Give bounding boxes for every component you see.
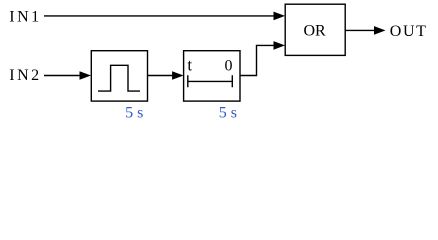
arrowhead into OR input 2 [274, 41, 286, 50]
svg-text:5 s: 5 s [125, 105, 143, 122]
svg-text:IN2: IN2 [9, 67, 41, 84]
svg-text:OR: OR [304, 23, 327, 40]
svg-text:5 s: 5 s [219, 105, 237, 122]
wire IN1 to OR input 1 [44, 15, 274, 17]
wire timer block to OR input 2 (right, up, right) [240, 45, 274, 75]
arrowhead toward OUT [374, 26, 386, 35]
svg-text:0: 0 [225, 58, 233, 75]
wire IN2 to pulse block [44, 75, 80, 77]
arrowhead into timer block [172, 71, 184, 80]
timer block B2 box [184, 51, 240, 101]
wire pulse block to timer block [148, 75, 173, 77]
OR gate U1 box [285, 4, 345, 55]
svg-text:t: t [187, 56, 192, 75]
arrowhead into pulse block [80, 71, 92, 80]
timer timeline with end ticks [188, 75, 233, 87]
wire OR output to OUT [345, 29, 374, 31]
svg-text:IN1: IN1 [9, 9, 41, 26]
pulse waveform symbol [98, 65, 140, 91]
arrowhead into OR input 1 [274, 12, 286, 21]
pulse block B1 box [91, 51, 147, 101]
svg-text:OUT: OUT [390, 23, 428, 40]
